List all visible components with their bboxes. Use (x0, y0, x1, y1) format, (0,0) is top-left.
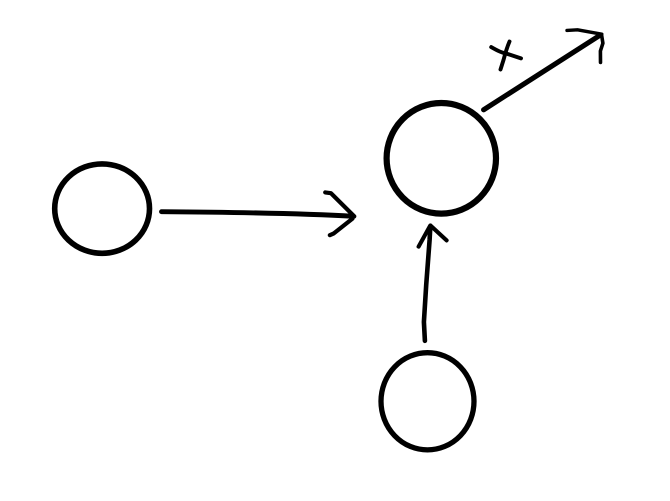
node C (bottom circle) (381, 353, 474, 450)
horizontal arrow head (325, 192, 354, 216)
node A (left circle) (55, 164, 150, 253)
wire: horizontal arrow shaft A->B (162, 212, 354, 217)
vertical arrow head (419, 226, 431, 247)
node B (middle circle) (387, 103, 496, 214)
X mark near diagonal arrow (501, 42, 510, 70)
wire: diagonal arrow shaft B->out (484, 36, 600, 110)
wire: vertical arrow shaft C->B (424, 227, 430, 341)
diagonal arrow head (567, 30, 602, 34)
